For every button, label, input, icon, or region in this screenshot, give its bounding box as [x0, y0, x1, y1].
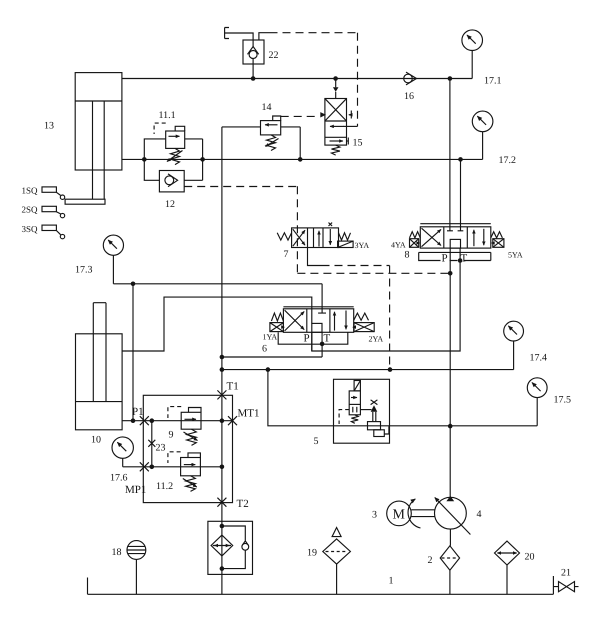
svg-text:1SQ: 1SQ [22, 186, 39, 196]
svg-text:20: 20 [525, 552, 535, 563]
svg-text:2YA: 2YA [369, 335, 384, 344]
svg-text:T1: T1 [227, 381, 239, 393]
svg-text:1: 1 [389, 576, 394, 587]
svg-text:13: 13 [44, 121, 54, 132]
svg-text:18: 18 [112, 547, 122, 558]
svg-text:17.1: 17.1 [484, 76, 502, 87]
svg-text:8: 8 [405, 250, 410, 261]
svg-text:4YA: 4YA [391, 241, 406, 250]
svg-text:MT1: MT1 [238, 408, 260, 420]
svg-text:2SQ: 2SQ [22, 205, 39, 215]
svg-text:17.4: 17.4 [530, 353, 548, 364]
svg-text:5: 5 [314, 436, 319, 447]
svg-text:T: T [324, 333, 331, 345]
svg-text:11.2: 11.2 [156, 481, 173, 492]
svg-text:P1: P1 [132, 406, 144, 418]
svg-text:23: 23 [156, 443, 166, 454]
svg-text:7: 7 [284, 249, 289, 260]
svg-text:11.1: 11.1 [159, 110, 176, 121]
svg-text:9: 9 [169, 430, 174, 441]
svg-text:19: 19 [307, 548, 317, 559]
svg-text:M: M [393, 508, 406, 523]
svg-text:3YA: 3YA [355, 241, 370, 250]
svg-text:MP1: MP1 [125, 484, 146, 496]
svg-text:4: 4 [477, 509, 482, 520]
svg-text:3SQ: 3SQ [22, 224, 39, 234]
svg-text:17.5: 17.5 [554, 395, 572, 406]
svg-text:T2: T2 [237, 498, 249, 510]
svg-text:3: 3 [372, 510, 377, 521]
svg-text:21: 21 [561, 568, 571, 579]
svg-text:P: P [304, 333, 310, 345]
svg-text:15: 15 [353, 138, 363, 149]
svg-text:17.3: 17.3 [75, 265, 93, 276]
svg-text:5YA: 5YA [508, 251, 523, 260]
svg-text:2: 2 [428, 555, 433, 566]
svg-text:10: 10 [91, 435, 101, 446]
svg-text:16: 16 [404, 91, 414, 102]
svg-text:17.6: 17.6 [110, 473, 128, 484]
svg-text:T: T [461, 253, 468, 265]
svg-text:12: 12 [165, 199, 175, 210]
svg-text:P: P [442, 253, 448, 265]
svg-text:14: 14 [262, 102, 272, 113]
svg-text:6: 6 [262, 344, 267, 355]
svg-text:17.2: 17.2 [499, 155, 517, 166]
svg-text:1YA: 1YA [263, 333, 278, 342]
svg-text:22: 22 [269, 50, 279, 61]
